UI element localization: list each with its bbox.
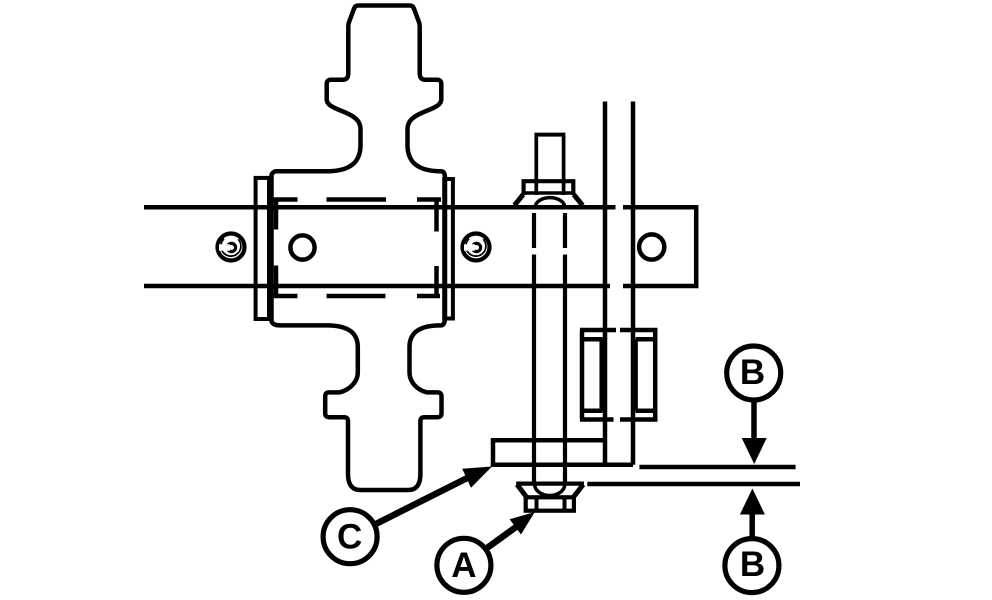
bolt shaft hidden dashes (534, 213, 565, 286)
bushing left half (580, 330, 616, 420)
bolt shaft top (536, 136, 563, 195)
arrow A (487, 527, 516, 548)
bottom nut skirt left (517, 485, 527, 498)
bottom nut flange line (516, 482, 584, 486)
svg-text:A: A (451, 546, 476, 585)
rail bottom line (144, 284, 610, 289)
svg-text:B: B (740, 353, 765, 392)
hidden pocket dashed bottom (273, 294, 441, 299)
lower frame line lower (587, 482, 800, 487)
bushing right half (620, 330, 658, 420)
callout circle A (437, 538, 491, 592)
callout circle B top (727, 346, 781, 400)
hole in right bracket (639, 234, 664, 259)
right bracket plate (444, 179, 453, 319)
rivet fastener right (463, 234, 490, 261)
flange inner line (522, 191, 575, 194)
frame vertical 2 (631, 102, 636, 465)
callout circle C (323, 510, 377, 564)
frame vertical 1 (603, 102, 608, 465)
hidden pocket dashed left vertical (274, 200, 279, 295)
svg-text:B: B (740, 545, 765, 584)
washer dome top (536, 198, 565, 206)
arrow B down (751, 401, 757, 443)
arrow C (377, 478, 469, 524)
bolt flange box (524, 181, 574, 195)
bolt top cap (534, 133, 565, 137)
flange skirt right (574, 195, 583, 206)
hidden pocket dashed top (273, 197, 442, 202)
left bracket plate (256, 178, 269, 319)
bottom nut skirt right (574, 485, 584, 498)
right bracket with hole (623, 205, 696, 288)
center trunnion silhouette (272, 6, 446, 491)
hole in body (290, 235, 314, 259)
lower frame line upper (639, 465, 795, 470)
rail top line (144, 205, 616, 210)
callout circle B bottom (725, 539, 779, 593)
bottom nut hex box (526, 497, 574, 510)
bolt shaft lower (534, 286, 565, 483)
bottom nut hex flats (537, 497, 565, 510)
bottom washer dome (535, 485, 565, 496)
hidden pocket dashed right vertical (434, 200, 439, 297)
rivet fastener left (218, 234, 245, 261)
arrow B up (749, 513, 755, 538)
svg-text:C: C (337, 517, 362, 556)
pivot plate (493, 440, 633, 465)
flange skirt left (514, 195, 523, 206)
